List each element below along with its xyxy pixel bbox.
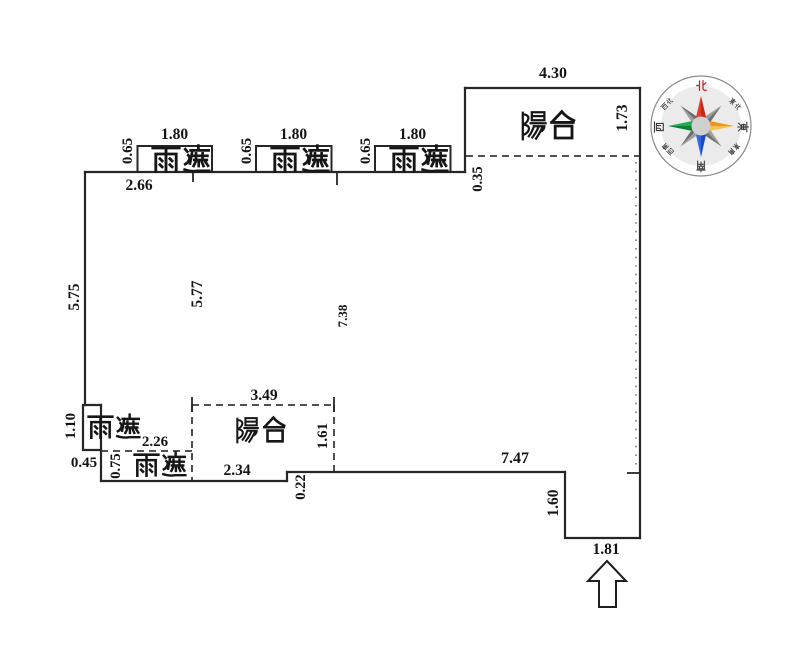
- svg-text:1.60: 1.60: [545, 489, 562, 516]
- compass N red point: [696, 96, 701, 126]
- svg-text:7.47: 7.47: [501, 450, 529, 467]
- dimension labels rotated: [63, 104, 631, 516]
- dashed balcony outline bottom: [192, 404, 334, 406]
- tick below top wall: [336, 173, 338, 185]
- dashed balcony right edge: [333, 405, 335, 471]
- svg-text:1.81: 1.81: [592, 541, 619, 558]
- svg-text:7.38: 7.38: [335, 304, 350, 327]
- tick dashed corner left: [191, 397, 193, 412]
- dotted dimension line along right wall: [635, 162, 637, 468]
- canopy label lower-left 2: [135, 453, 186, 476]
- svg-text:1.73: 1.73: [614, 104, 631, 131]
- svg-text:2.34: 2.34: [223, 462, 250, 479]
- compass label SW pair: [661, 143, 674, 156]
- tick dashed corner right: [333, 397, 335, 412]
- compass NW gray point: [681, 106, 702, 127]
- compass SE gray point: [701, 126, 722, 147]
- dashed balcony left edge: [191, 405, 193, 480]
- balcony label bottom: [237, 418, 284, 443]
- wire: balcony left wall: [464, 88, 466, 172]
- compass center hub: [692, 117, 711, 136]
- svg-text:2.66: 2.66: [125, 177, 152, 194]
- canopy box 2 top: [256, 146, 332, 172]
- wire: top exterior wall: [85, 171, 465, 173]
- svg-text:3.49: 3.49: [250, 387, 277, 404]
- svg-text:0.65: 0.65: [120, 138, 136, 164]
- svg-text:1.80: 1.80: [161, 126, 188, 143]
- wire: right exterior wall: [639, 88, 641, 538]
- svg-text:1.61: 1.61: [315, 423, 331, 449]
- wire: bottom entry recess: [565, 472, 640, 538]
- wire: left exterior wall: [84, 172, 86, 405]
- compass label W: [654, 122, 663, 132]
- svg-text:1.10: 1.10: [63, 413, 79, 439]
- svg-text:4.30: 4.30: [539, 65, 567, 82]
- dashed canopy line 2.26: [101, 450, 192, 452]
- compass label N: [697, 81, 706, 91]
- balcony label top (yang-tai): [523, 112, 574, 140]
- svg-text:0.65: 0.65: [358, 138, 374, 164]
- wire: bottom wall right section: [287, 471, 565, 473]
- canopy box lower-left: [83, 405, 101, 450]
- wire: balcony top wall: [465, 87, 640, 89]
- compass S blue point: [701, 126, 706, 157]
- compass label E: [738, 122, 749, 132]
- compass W green point: [668, 121, 701, 126]
- entrance arrow: [588, 561, 626, 607]
- dashed balcony line top-right: [466, 155, 639, 157]
- dimension labels horizontal: [71, 65, 620, 558]
- svg-text:5.77: 5.77: [189, 280, 206, 307]
- svg-text:0.45: 0.45: [71, 455, 97, 471]
- canopy label box2: [272, 146, 328, 172]
- wire: bottom wall step: [286, 472, 288, 481]
- compass label S: [697, 161, 705, 172]
- wire: lower-left vertical wall: [100, 405, 102, 481]
- wire: bottom wall left section: [101, 480, 287, 482]
- svg-text:1.80: 1.80: [399, 126, 426, 143]
- compass NE gray point: [701, 106, 722, 127]
- compass rose: [651, 76, 751, 176]
- compass label NE pair: [728, 97, 741, 110]
- canopy label box3: [391, 146, 447, 172]
- svg-text:5.75: 5.75: [66, 283, 83, 310]
- canopy box 3 top: [375, 146, 451, 172]
- tick at 2.66 end: [192, 173, 194, 182]
- canopy box 1 top: [138, 146, 213, 172]
- canopy label box1 (rain cover): [153, 146, 209, 172]
- tick on right wall at recess top: [627, 472, 639, 474]
- compass label SE pair: [728, 142, 741, 155]
- svg-text:1.80: 1.80: [280, 126, 307, 143]
- svg-text:0.75: 0.75: [108, 453, 124, 478]
- compass outer circle: [651, 76, 751, 176]
- canopy label lower-left 1: [89, 415, 140, 438]
- compass SW gray point: [681, 126, 702, 147]
- svg-text:0.65: 0.65: [239, 138, 255, 164]
- compass label NW pair: [661, 97, 673, 110]
- compass inner disc: [661, 86, 741, 166]
- svg-text:2.26: 2.26: [142, 434, 169, 450]
- svg-text:0.22: 0.22: [293, 474, 309, 499]
- compass E orange point: [701, 121, 734, 126]
- svg-text:0.35: 0.35: [470, 166, 486, 191]
